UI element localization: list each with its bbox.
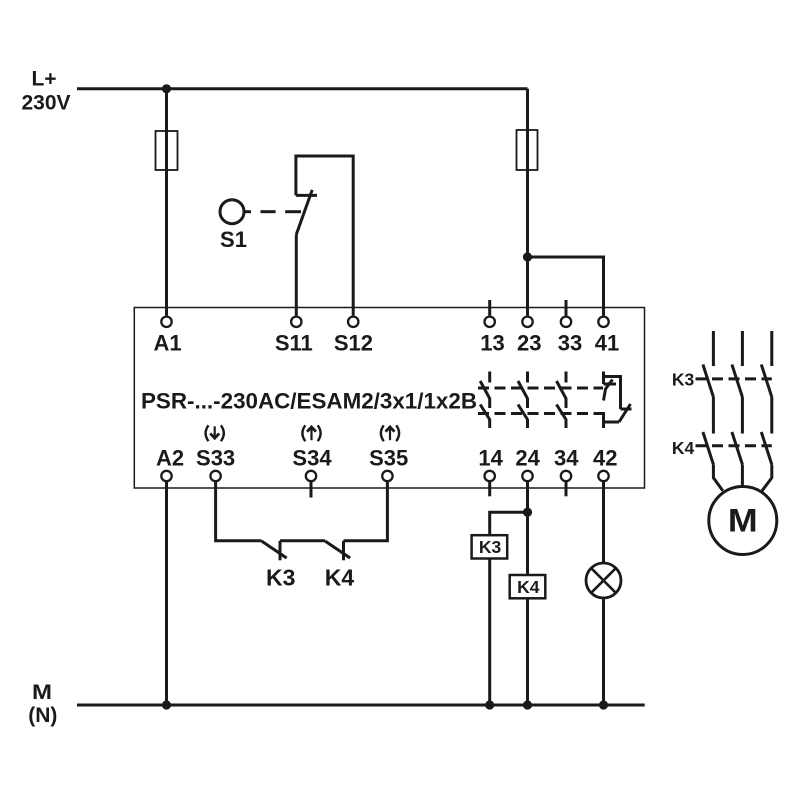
- contact K3 aux NC blade: [262, 541, 287, 558]
- terminal 34 stub: [565, 482, 568, 496]
- arrow (down) above S33: [206, 425, 224, 441]
- linkage dashed K4: [696, 444, 772, 447]
- svg-text:PSR-...-230AC/ESAM2/3x1/1x2B: PSR-...-230AC/ESAM2/3x1/1x2B: [141, 389, 477, 414]
- contact 13-14: [480, 372, 490, 429]
- svg-text:(N): (N): [28, 704, 57, 727]
- svg-text:41: 41: [595, 330, 619, 355]
- fuse F2: [517, 130, 538, 170]
- wire A2 drop to N rail: [165, 482, 168, 705]
- terminal 13 stub: [488, 300, 491, 316]
- node junction K3/N: [485, 700, 494, 709]
- contact 23-24: [518, 372, 528, 429]
- svg-text:S34: S34: [292, 445, 332, 470]
- svg-text:A1: A1: [153, 330, 181, 355]
- svg-text:42: 42: [593, 445, 617, 470]
- linkage dashed upper: [478, 387, 603, 390]
- lamp H1: [586, 563, 621, 598]
- svg-text:K3: K3: [479, 537, 502, 557]
- linkage dashed K3: [696, 377, 772, 380]
- terminal 23: [522, 317, 532, 327]
- svg-text:23: 23: [517, 330, 541, 355]
- wire S11 drop: [295, 235, 298, 316]
- node junction K4/N: [523, 700, 532, 709]
- wire N rail: [77, 704, 645, 707]
- arrow (up) above S34: [302, 425, 320, 441]
- svg-text:K4: K4: [325, 565, 355, 591]
- terminal S34 stub: [310, 482, 313, 498]
- svg-text:A2: A2: [156, 445, 184, 470]
- coil K4: [510, 575, 546, 598]
- contact S1 NC loop top: [296, 156, 353, 316]
- wire K3 coil branch: [490, 512, 528, 535]
- contact K3 aux NC seat: [279, 541, 282, 561]
- svg-text:K4: K4: [517, 577, 540, 597]
- svg-text:K3: K3: [266, 565, 295, 591]
- svg-text:M: M: [728, 503, 758, 539]
- svg-text:M: M: [32, 681, 52, 704]
- wire S1 dashed linkage: [261, 210, 276, 213]
- terminal 41: [598, 317, 608, 327]
- terminal A1: [161, 317, 171, 327]
- svg-text:L+: L+: [31, 68, 56, 91]
- wire phases K3 to K4: [713, 397, 771, 434]
- terminal S11: [291, 317, 301, 327]
- wire aux to S35: [344, 482, 388, 541]
- terminal S12: [348, 317, 358, 327]
- contactor K3 main contacts: [703, 331, 772, 397]
- contact K4 aux NC blade: [325, 541, 350, 558]
- svg-text:34: 34: [554, 445, 579, 470]
- node junction 23/41 branch: [523, 252, 532, 261]
- arrow (up) above S35: [381, 425, 399, 441]
- terminal 14 stub: [488, 482, 491, 496]
- svg-text:14: 14: [478, 445, 503, 470]
- wire K3 coil to N rail: [488, 559, 491, 706]
- node junction 24/K3: [523, 508, 532, 517]
- wire K3-K4 aux link: [280, 539, 325, 542]
- fuse F1: [156, 131, 178, 170]
- contact S1 NC blade: [296, 190, 312, 235]
- wire A1 drop: [165, 89, 168, 316]
- svg-text:230V: 230V: [21, 92, 70, 115]
- motor M1: [709, 487, 777, 555]
- svg-text:13: 13: [480, 330, 504, 355]
- svg-text:S1: S1: [220, 227, 247, 252]
- svg-text:K4: K4: [672, 438, 695, 458]
- wire 23 drop from rail: [526, 89, 529, 316]
- svg-text:S33: S33: [196, 445, 235, 470]
- wire 41 branch: [528, 257, 604, 316]
- wire phases K4 to motor: [713, 465, 771, 491]
- svg-text:K3: K3: [672, 370, 695, 390]
- svg-text:24: 24: [515, 445, 540, 470]
- svg-text:S11: S11: [275, 330, 313, 355]
- contact S1 NC seat: [296, 194, 317, 197]
- contact 41-42 NC group: [604, 372, 632, 429]
- svg-text:33: 33: [558, 330, 582, 355]
- terminal 33 stub: [565, 300, 568, 316]
- contact 33-34: [557, 372, 567, 429]
- wire L+ supply rail: [77, 87, 528, 90]
- wire 24 drop: [526, 482, 529, 575]
- svg-text:S12: S12: [334, 330, 373, 355]
- svg-text:S35: S35: [369, 445, 408, 470]
- node junction L+/A1: [162, 84, 171, 93]
- wire lamp to N rail: [602, 599, 605, 706]
- linkage dashed lower: [478, 412, 608, 415]
- node junction A2/N: [162, 700, 171, 709]
- wire S33 feedback down: [216, 482, 262, 541]
- contactor K4 main contacts: [703, 432, 772, 465]
- contact K4 aux NC seat: [342, 541, 345, 561]
- coil K3: [472, 535, 508, 558]
- pushbutton S1 actuator: [220, 200, 244, 224]
- wire 42 drop to lamp: [602, 482, 605, 563]
- wire K4 coil to N rail: [526, 598, 529, 705]
- relay box PSR outline: [134, 308, 644, 489]
- node junction lamp/N: [599, 700, 608, 709]
